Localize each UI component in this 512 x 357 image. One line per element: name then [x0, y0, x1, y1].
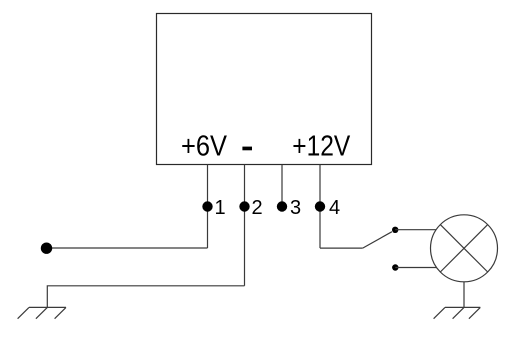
wire lower contact to lamp: [395, 267, 436, 269]
node A dot: [41, 243, 52, 254]
svg-text:+12V: +12V: [292, 131, 351, 163]
svg-text:1: 1: [215, 197, 226, 219]
svg-text:3: 3: [290, 197, 301, 219]
wire terminal 4 vertical: [319, 165, 321, 249]
wire terminal 4 to switch: [320, 247, 363, 249]
ground GND1: [18, 307, 66, 318]
label minus: [242, 147, 252, 151]
wire node A to terminal 1: [47, 247, 208, 249]
terminal dot 4: [315, 201, 325, 211]
wire terminal 2 to ground GND1: [47, 286, 244, 308]
lamp L1: [431, 215, 498, 282]
svg-text:4: 4: [329, 197, 340, 219]
terminal dot 2: [239, 201, 249, 211]
ground GND2: [434, 307, 481, 318]
wire terminal 1 vertical: [207, 165, 209, 249]
wire terminal 3 vertical: [281, 165, 283, 207]
terminal dot 3: [277, 201, 287, 211]
switch S1 upper contact: [392, 227, 398, 233]
power supply box U1: [157, 14, 372, 165]
svg-text:2: 2: [252, 197, 263, 219]
switch S1 lever: [363, 232, 392, 248]
svg-text:+6V: +6V: [181, 131, 228, 163]
wire lamp to ground GND2: [463, 282, 465, 308]
terminal dot 1: [202, 201, 212, 211]
wire upper contact to lamp: [395, 229, 436, 231]
wire terminal 2 vertical: [244, 165, 246, 286]
switch S1 lower contact: [392, 264, 398, 270]
